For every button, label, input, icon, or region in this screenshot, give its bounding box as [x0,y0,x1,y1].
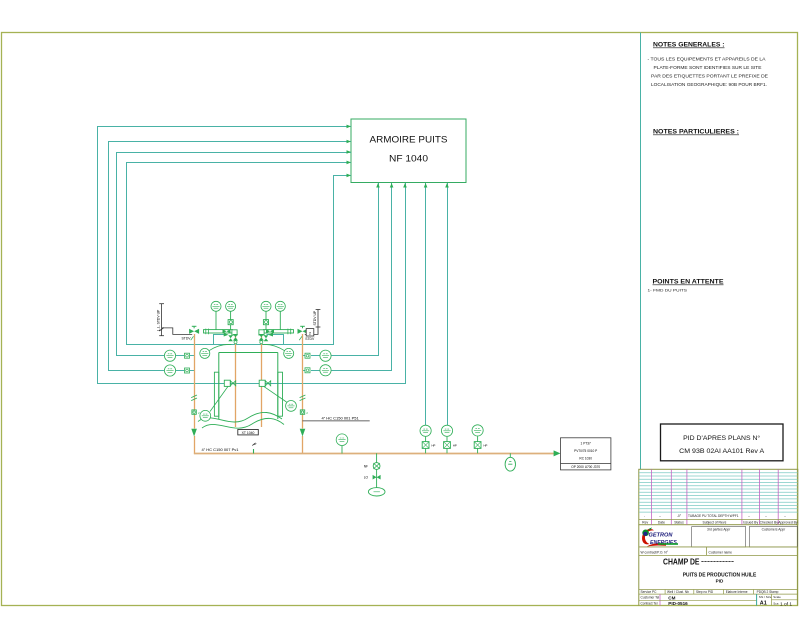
title area [663,558,757,584]
down arrow left tubing [191,429,197,437]
heading NOTES PARTICULIERES [653,129,739,136]
HIC instrument circle right [286,401,297,412]
black dimension line left STDV UP [159,304,192,336]
breakaway symbol on right kill line [300,395,306,401]
arrowheads into cabinet left edge [347,125,352,178]
svg-text:PID: PID [716,579,724,584]
svg-text:CHAMP DE: CHAMP DE [663,558,700,567]
svg-text:PV70/75 0010 P: PV70/75 0010 P [574,449,597,453]
svg-text:Checked By: Checked By [760,520,779,524]
instrument circle left wellside PSH [164,350,189,361]
label STDV right [305,337,315,341]
svg-text:Sca: Sca [773,601,779,605]
left swab valve below bar [228,335,233,341]
svg-text:3rd parties Appr: 3rd parties Appr [707,528,731,532]
svg-text:Approved By: Approved By [778,520,798,524]
svg-text:NF: NF [364,464,368,468]
svg-text:--: -- [765,514,767,518]
svg-text:STDV: STDV [182,337,192,341]
bottom label row [639,590,798,595]
svg-text:--: -- [659,514,661,518]
left gauge PT circle with block valve square [226,301,236,329]
casing break waves [198,412,284,428]
label L.L. STDV UP left [156,309,160,331]
svg-text:Scale: Scale [773,595,781,599]
label STDV left [182,337,192,341]
svg-text:Status: Status [674,520,684,524]
wire L2 (left PSL loop) [109,142,352,371]
svg-text:CM: CM [668,596,675,601]
svg-text:Well / Clust. Nb: Well / Clust. Nb [667,590,689,594]
svg-text:PID D'APRES PLANS N°: PID D'APRES PLANS N° [683,434,760,442]
svg-text:A1: A1 [760,600,767,606]
svg-text:Contract Tel: Contract Tel [641,602,658,606]
svg-text:STDV: STDV [305,337,315,341]
wire L3 (left PSH loop) [117,153,352,356]
svg-text:NF 1040: NF 1040 [389,154,428,164]
svg-text:2: 2 [306,411,308,415]
svg-text:NOTES PARTICULIERES :: NOTES PARTICULIERES : [653,129,739,136]
note text [648,56,769,87]
wellhead side flange right [278,372,283,416]
left gauge PI circle [211,301,221,329]
right master valve on tubing [259,334,264,344]
svg-text:--: -- [748,514,750,518]
svg-text:Date: Date [658,520,665,524]
SCSSV instrument circle left [200,410,211,421]
svg-text:--: -- [784,514,786,518]
instrument PSH 1040 on pipeline [420,425,436,453]
right gauge PT circle with block valve square [261,301,271,329]
left flow arm pipe [204,329,233,335]
wire right PSL drop [303,183,392,371]
right choke box at arm end [259,330,264,335]
instrument circle right wellside PSH [305,350,331,361]
instrument PI 1040 on pipeline [472,425,488,454]
wire cabinet to pipeline instrument drops [426,183,448,425]
pipeline arrow into riser box [554,450,561,456]
arrowhead SDV signal right [268,333,273,337]
document number rows [639,594,798,607]
right gauge PI circle [275,301,285,329]
production pipeline (orange) [194,453,554,455]
breakaway symbol on left tubing [191,395,197,401]
right wing valve STDV with actuator [298,326,308,340]
fitting on right kill line [300,410,308,415]
svg-text:-----------: ----------- [701,560,734,566]
instrument PSL 1040 on pipeline [441,425,457,453]
tubing line left (orange) [194,334,196,454]
svg-text:LO: LO [364,476,369,480]
destination box [561,438,611,470]
svg-text:ARMOIRE PUITS: ARMOIRE PUITS [370,135,448,145]
svg-text:Rev: Rev [642,520,648,524]
svg-text:W contract/P.O. N°: W contract/P.O. N° [641,551,669,555]
pipeline label [202,447,240,452]
tubing string right inside well (orange) [261,334,263,427]
svg-text:PID-0516: PID-0516 [668,601,688,606]
wire L1 loop (left PI to cabinet, long bottom run) [98,127,406,384]
left wing valve STDV with actuator [189,326,199,340]
down arrow right kill line [300,429,306,437]
svg-text:Customers Appr: Customers Appr [762,528,787,532]
instrument circle right wellside PSL [305,365,331,376]
control cabinet ARMOIRE PUITS NF 1040 [351,119,466,183]
svg-text:4" HC C150 007 Pv1: 4" HC C150 007 Pv1 [202,447,240,452]
kill line label with leader [303,415,370,421]
downhole safety valve right [259,380,286,402]
note flag 2 right [306,329,314,336]
svg-text:HP: HP [453,443,457,447]
kill line right (orange) [302,334,304,454]
downhole safety valve left [210,380,236,411]
svg-text:1 of 1: 1 of 1 [780,601,792,607]
svg-text:PAR DES ETIQUETTES PORTANT LE: PAR DES ETIQUETTES PORTANT LE PREFIXE DE [651,74,768,79]
svg-text:GETRON: GETRON [649,532,674,538]
left wellhead gauge circle with curve [200,344,232,358]
wire right PSH drop [303,183,379,356]
svg-text:Subject of Revs: Subject of Revs [703,520,727,524]
svg-text:TUBAGE PU TOTAL DEPTH WPF1: TUBAGE PU TOTAL DEPTH WPF1 [688,514,739,518]
svg-text:- TOUS LES EQUIPEMENTS ET APP: - TOUS LES EQUIPEMENTS ET APPAREILS DE L… [648,56,767,61]
wire L4 (wing SDV signal loop) [127,163,352,345]
svg-text:Elabore Interne: Elabore Interne [726,590,748,594]
heading POINTS EN ATTENTE [648,279,724,293]
label STDV UP right [313,310,317,325]
right wellhead gauge circle with curve [263,344,294,358]
svg-text:1- FMD DU PUITS: 1- FMD DU PUITS [648,288,688,293]
svg-text:PLATE-FORME SONT IDENTIFIES SU: PLATE-FORME SONT IDENTIFIES SUR LE SITE [654,65,762,70]
svg-text:PDQB 2 Stamp: PDQB 2 Stamp [757,590,779,594]
instrument circle left wellside PSL [164,365,189,376]
svg-text:HP: HP [484,443,488,447]
svg-text:4" HC C150 001 P51: 4" HC C150 001 P51 [322,415,360,420]
svg-text:XT 1040: XT 1040 [242,431,255,435]
svg-text:CM 93B 02AI AA101 Rev A: CM 93B 02AI AA101 Rev A [679,448,764,455]
black dimension line right STDV UP [305,310,321,335]
wellhead name label box [238,430,258,435]
spec break flag on pipeline [252,443,257,454]
svg-text:Customer Tel: Customer Tel [641,596,660,600]
tubing string left inside well (orange) [235,334,237,427]
svg-text:Service PC: Service PC [641,590,658,594]
svg-text:Issued By: Issued By [743,520,758,524]
svg-text:-0°: -0° [677,514,682,518]
svg-text:STDV UP: STDV UP [313,310,317,325]
svg-text:OP 2000 U700 J370: OP 2000 U700 J370 [571,465,600,469]
svg-text:HP: HP [432,443,436,447]
fitting on left tubing [192,410,200,415]
approval boxes row [639,525,798,606]
svg-text:LOCALISATION GEOGRAPHIQUE: 90B: LOCALISATION GEOGRAPHIQUE: 90B POUR BRF1… [651,82,767,87]
left choke box at arm end [232,330,237,335]
arrowhead SDV signal left [224,333,229,337]
right flow arm pipe [264,329,294,335]
instrument PI on pipeline left [336,434,348,454]
svg-text:NOTES GENERALES :: NOTES GENERALES : [653,42,725,49]
left master valve on tubing [233,334,238,344]
svg-text:Sht / Size: Sht / Size [759,595,772,599]
wellhead side flange left [214,372,218,416]
heading NOTES GENERALES [653,42,725,49]
svg-text:Step no PID: Step no PID [696,590,714,594]
reference box PID D'APRES PLANS [661,424,784,461]
notes panel divider [640,33,642,470]
drain branch with valves [364,453,385,496]
svg-text:Customer name: Customer name [709,551,733,555]
svg-text:L.L. STDV UP: L.L. STDV UP [156,309,160,331]
company logo [642,527,678,546]
svg-text:-: - [644,514,645,518]
sample point ellipse below pipeline [505,453,515,471]
right swab valve below bar [264,335,269,341]
contract row [639,547,798,556]
svg-text:1 PT37: 1 PT37 [581,442,592,446]
svg-text:RC 1030: RC 1030 [579,456,592,460]
revision table [639,469,798,524]
svg-text:POINTS EN ATTENTE: POINTS EN ATTENTE [653,279,724,286]
wellhead body [219,353,278,420]
arrowheads into cabinet bottom edge [376,183,449,188]
